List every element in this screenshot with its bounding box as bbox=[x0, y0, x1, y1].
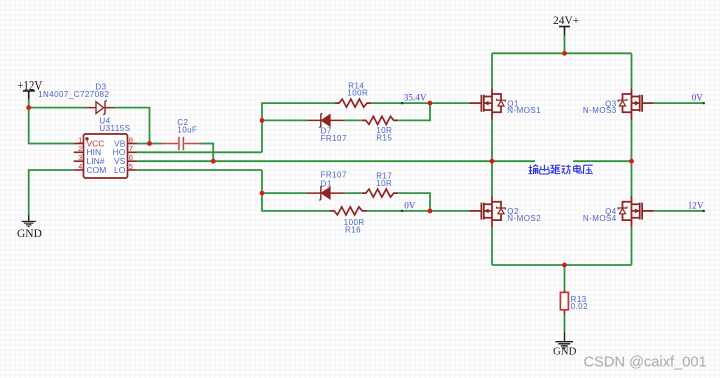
svg-text:GND: GND bbox=[17, 228, 42, 240]
svg-text:N-MOS2: N-MOS2 bbox=[507, 214, 541, 223]
svg-text:0.02: 0.02 bbox=[571, 302, 588, 311]
svg-text:R15: R15 bbox=[376, 134, 392, 143]
svg-text:1N4007_C727082: 1N4007_C727082 bbox=[38, 90, 109, 99]
svg-text:7: 7 bbox=[129, 144, 133, 153]
svg-text:LO: LO bbox=[114, 165, 126, 175]
svg-text:FR107: FR107 bbox=[321, 170, 347, 179]
svg-text:2: 2 bbox=[78, 144, 82, 153]
svg-text:10R: 10R bbox=[376, 179, 392, 188]
svg-text:8: 8 bbox=[129, 135, 133, 144]
svg-text:35.4V: 35.4V bbox=[404, 93, 427, 103]
svg-text:0V: 0V bbox=[692, 93, 704, 103]
svg-text:24V+: 24V+ bbox=[553, 15, 579, 27]
svg-text:COM: COM bbox=[87, 165, 107, 175]
svg-text:12V: 12V bbox=[688, 200, 704, 210]
svg-text:GND: GND bbox=[553, 346, 577, 358]
svg-text:N-MOS1: N-MOS1 bbox=[507, 106, 541, 115]
svg-text:N-MOS3: N-MOS3 bbox=[583, 106, 617, 115]
svg-text:10uF: 10uF bbox=[177, 125, 197, 134]
svg-text:4: 4 bbox=[78, 162, 82, 171]
svg-text:N-MOS4: N-MOS4 bbox=[583, 214, 617, 223]
svg-text:U3115S: U3115S bbox=[99, 124, 130, 133]
svg-text:1: 1 bbox=[78, 135, 82, 144]
svg-text:FR107: FR107 bbox=[321, 134, 347, 143]
svg-text:R16: R16 bbox=[345, 226, 361, 235]
svg-text:6: 6 bbox=[129, 153, 133, 162]
svg-text:CSDN @caixf_001: CSDN @caixf_001 bbox=[584, 354, 707, 370]
svg-text:3: 3 bbox=[78, 153, 82, 162]
svg-text:5: 5 bbox=[129, 162, 133, 171]
svg-text:0V: 0V bbox=[404, 200, 416, 210]
svg-text:D1: D1 bbox=[321, 180, 332, 189]
svg-text:100R: 100R bbox=[347, 88, 368, 97]
